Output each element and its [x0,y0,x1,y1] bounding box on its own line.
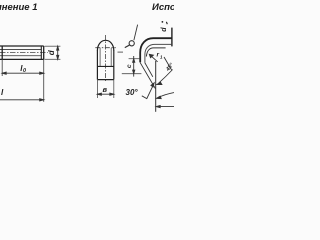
inner groove diagonal [145,63,153,77]
leader arrow to end face (lower) [156,106,174,108]
svg-text:l: l [1,88,4,97]
thread minor line bottom [0,55,41,57]
chamfer line at stud end [40,46,42,59]
stud axis centerline [0,52,48,54]
svg-text:d: d [161,27,168,32]
svg-text:Исполнение 2: Исполнение 2 [152,2,174,13]
dimension d extension line top [45,45,61,47]
d' prime comma [165,22,168,24]
end view outer left line [96,50,98,79]
short stroke from ring toward surface [125,45,130,48]
svg-text:0: 0 [23,68,26,74]
svg-text:d: d [47,49,56,55]
thread boundary line [1,46,3,59]
thread minor line top [0,49,41,51]
small boundary line left of c [118,51,124,53]
end view break line bottom [97,79,113,81]
svg-text:30°: 30° [126,88,139,97]
detail thread band lower line [146,48,165,57]
d' prime dot [162,21,164,23]
shared extension line right (l0 and l) [43,59,45,101]
dimension в line with arrows [97,93,113,95]
end view vertical centerline [105,35,107,82]
end view thread line right [110,48,112,66]
dimension c line with arrows [133,56,135,77]
svg-text:Исполнение 1: Исполнение 1 [0,2,38,13]
dimension d extension line bottom [45,58,61,60]
30-degree groove wall diagonal [140,62,155,88]
detail leader ring [129,41,134,46]
stud body bottom edge [0,58,44,60]
detail thread line curve [145,44,171,62]
svg-text:в: в [103,85,108,94]
end view thread boundary [97,65,113,67]
dimension l line with right arrow [0,99,44,101]
detail leader line [134,25,138,41]
rounded (spherical) stud end [97,40,113,50]
dimension l0 line with arrows [2,72,44,74]
end view outer right line [113,50,115,79]
detail outer profile curve [140,38,172,62]
svg-text:45°: 45° [165,62,174,74]
radius r1 leader with arrow [149,54,157,62]
svg-text:1: 1 [160,55,163,60]
dimension в extension left [96,80,98,98]
detail end face vertical [155,61,157,112]
end view horizontal centerline [95,47,116,49]
45 degrees leader diagonal [164,57,172,70]
dimension c extension top [129,58,140,60]
leader arrow to end face (upper) [156,93,174,99]
30 degrees leader with arrow [142,83,154,99]
stud body top edge [0,45,44,47]
dimension в extension right [113,80,115,98]
detail right vertical line (d' extension) [171,28,173,47]
svg-text:c: c [126,64,133,68]
45 degrees leader curve with arrow [157,70,173,85]
end view thread line left [99,48,101,66]
dimension c extension bottom [122,73,142,75]
dimension d line with arrows [57,46,59,59]
dimension l0 extension line left [1,59,3,76]
stud end face [43,46,45,59]
